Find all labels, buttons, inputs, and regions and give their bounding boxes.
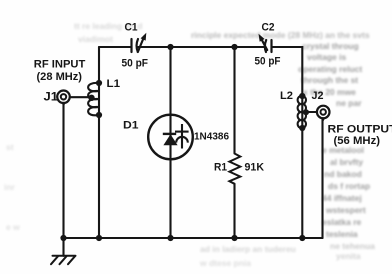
junction node: L1 tap [88, 95, 94, 101]
svg-text:crystal throug: crystal throug [302, 41, 359, 51]
inductor L2 (tapped coil) [298, 96, 306, 128]
wire top rail left segment [99, 46, 131, 48]
junction node: L2 top [299, 93, 305, 99]
svg-text:wstespert: wstespert [325, 205, 366, 215]
svg-text:voltage is: voltage is [307, 52, 346, 62]
ground symbol [51, 256, 76, 264]
inductor L1 (tapped coil) [88, 83, 99, 115]
svg-text:R1: R1 [214, 162, 227, 174]
svg-text:50 pF: 50 pF [255, 56, 281, 68]
svg-text:RF INPUT: RF INPUT [34, 58, 86, 70]
svg-text:(28 MHz): (28 MHz) [37, 71, 83, 83]
svg-text:J1: J1 [44, 92, 59, 104]
wire top rail middle segment [138, 46, 265, 48]
junction node: L1 bottom [96, 112, 102, 118]
svg-text:through the st: through the st [301, 75, 358, 85]
wire J2 shield down [321, 118, 323, 238]
svg-text:L1: L1 [107, 78, 121, 90]
svg-text:teslenia: teslenia [326, 229, 358, 239]
capacitor C1 (variable, 50 pF) [132, 37, 145, 53]
wire R1 branch vertical upper [233, 47, 235, 154]
connector J2 (RF output jack) [317, 106, 330, 119]
wire L2 branch vertical [301, 96, 303, 238]
faint page bleed-through text (decorative) [191, 30, 375, 268]
svg-text:ne par: ne par [336, 98, 362, 108]
svg-text:operating reluct: operating reluct [298, 64, 362, 74]
wire J1 shield down to ground [62, 103, 64, 256]
svg-text:J2: J2 [312, 90, 324, 102]
wire bottom ground rail [64, 237, 323, 239]
svg-text:al brvfty: al brvfty [330, 157, 363, 167]
svg-text:D1: D1 [123, 120, 139, 132]
svg-text:L2: L2 [280, 90, 293, 102]
svg-text:91K: 91K [245, 162, 265, 174]
svg-text:st: st [6, 142, 14, 152]
junction node: L2 tap [303, 109, 309, 115]
wire top rail right segment with corner down to L2 [272, 47, 303, 96]
varactor diode D1 1N4386 [148, 115, 193, 160]
svg-text:yenita: yenita [336, 251, 361, 261]
svg-text:44 iffnatej: 44 iffnatej [322, 193, 362, 203]
wire R1 branch vertical lower [233, 184, 235, 238]
junction node: L1 top [96, 80, 102, 86]
svg-text:RF OUTPUT: RF OUTPUT [328, 124, 392, 136]
svg-text:ds f rortap: ds f rortap [328, 181, 370, 191]
junction node: bottom rail / L2 [299, 235, 305, 241]
junction node: bottom rail / J1 ground [60, 235, 66, 241]
junction node: bottom rail / R1 [231, 235, 237, 241]
capacitor C2 (variable, 50 pF) [261, 38, 272, 52]
svg-text:ad in ladierp an tudereu: ad in ladierp an tudereu [200, 244, 296, 254]
svg-text:50 pF: 50 pF [122, 58, 149, 70]
svg-text:w dtese pnia: w dtese pnia [199, 258, 251, 268]
junction node: L2 bottom [299, 125, 305, 131]
svg-text:1N4386: 1N4386 [194, 131, 229, 143]
svg-text:ne tehenua: ne tehenua [330, 241, 375, 251]
svg-text:viadimot: viadimot [78, 34, 113, 44]
svg-text:eslatka re: eslatka re [322, 217, 361, 227]
wire left branch vertical (L1 branch) [98, 47, 100, 238]
svg-text:C2: C2 [262, 22, 275, 34]
resistor R1 91K [229, 154, 240, 184]
svg-text:inr: inr [4, 182, 16, 192]
wire L2 tap to J2 [305, 111, 317, 113]
junction node: bottom rail / D1 [167, 235, 173, 241]
junction node: top rail / R1 [231, 44, 237, 50]
svg-text:nd bakod: nd bakod [324, 169, 362, 179]
wire D1 branch vertical [169, 47, 171, 238]
svg-text:rinciple expected mode (28 MHz: rinciple expected mode (28 MHz) an the s… [191, 30, 370, 40]
junction node: top rail / D1 [167, 44, 173, 50]
junction node: bottom rail / L1 [96, 235, 102, 241]
svg-text:(56 MHz): (56 MHz) [334, 135, 381, 147]
connector J1 (RF input jack) [57, 91, 70, 104]
svg-text:e w: e w [6, 222, 20, 232]
svg-text:C1: C1 [125, 22, 138, 34]
wire J1 to L1 tap [70, 96, 91, 98]
